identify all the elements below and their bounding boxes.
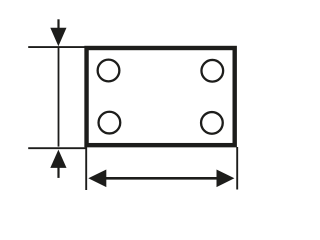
extension line left (width dimension) — [85, 147, 87, 190]
hole bottom-left — [99, 112, 121, 134]
height dimension upper leader stem — [57, 19, 59, 28]
hole bottom-right — [201, 112, 223, 134]
height dimension arrowhead bottom (pointing up) — [50, 150, 66, 168]
extension line top (height dimension) — [28, 46, 86, 48]
hole top-left — [98, 60, 120, 82]
height dimension arrowhead top (pointing down) — [50, 28, 66, 46]
plate outline (rectangle body) — [87, 48, 235, 145]
hole top-right — [201, 60, 223, 82]
extension line bottom (height dimension) — [28, 147, 86, 149]
extension line right (width dimension) — [236, 147, 238, 190]
height dimension lower leader stem — [57, 167, 59, 178]
width dimension line (horizontal) — [105, 177, 219, 180]
width dimension arrowhead right (pointing right) — [217, 170, 235, 188]
height dimension line (vertical) — [58, 48, 60, 147]
width dimension arrowhead left (pointing left) — [88, 170, 106, 188]
